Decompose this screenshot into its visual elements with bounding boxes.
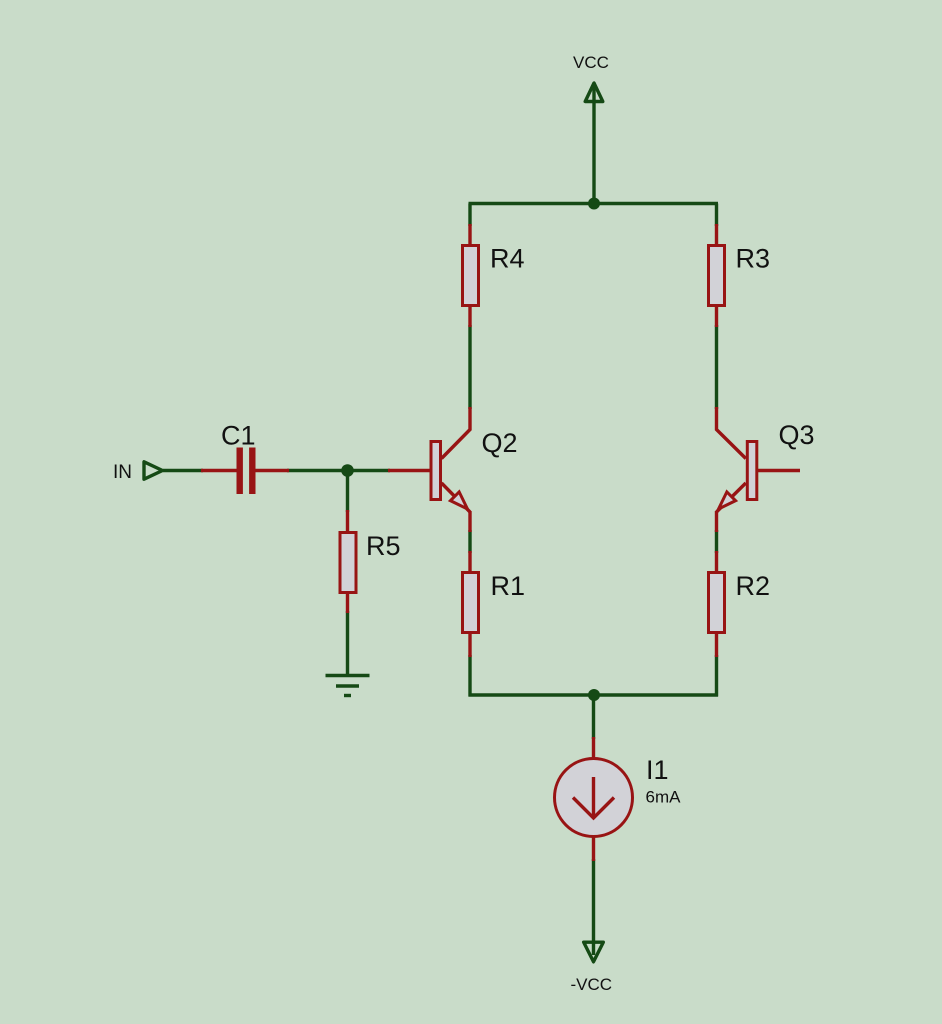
svg-text:R4: R4	[490, 244, 525, 274]
svg-text:C1: C1	[221, 421, 256, 451]
svg-text:R2: R2	[736, 571, 771, 601]
svg-text:Q3: Q3	[779, 420, 815, 450]
svg-text:VCC: VCC	[573, 53, 609, 72]
svg-text:-VCC: -VCC	[571, 975, 613, 994]
svg-text:I1: I1	[646, 755, 669, 785]
svg-text:R3: R3	[736, 244, 771, 274]
svg-text:Q2: Q2	[482, 428, 518, 458]
svg-text:6mA: 6mA	[646, 788, 682, 807]
svg-text:R5: R5	[366, 531, 401, 561]
svg-text:IN: IN	[113, 462, 132, 483]
svg-text:R1: R1	[491, 571, 526, 601]
